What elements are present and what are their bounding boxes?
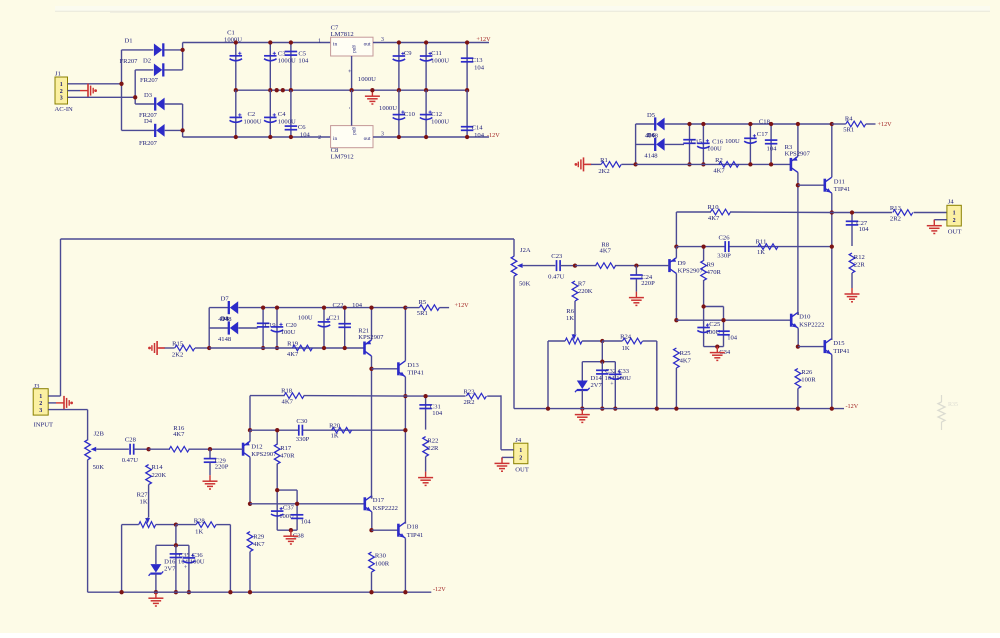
svg-text:. C37: . C37 <box>280 505 295 512</box>
junction feedback mid <box>248 428 252 432</box>
wire driver base rail <box>676 319 791 321</box>
junction center rail extra dots <box>275 88 285 92</box>
junction cap block bottom <box>715 344 719 348</box>
wire feedback left vertical <box>249 396 251 431</box>
junction C17 top <box>748 122 752 126</box>
wire zener node vertical <box>175 525 177 546</box>
capacitor C23 0.47U <box>548 253 575 281</box>
capacitor C3 1000U <box>264 43 296 91</box>
wire diode pair left vertical <box>635 124 637 164</box>
junction rectifier plus <box>180 48 184 52</box>
svg-text:100U: 100U <box>190 558 205 565</box>
svg-text:TIP41: TIP41 <box>834 186 850 193</box>
potentiometer wiper R27 <box>145 518 150 524</box>
junction output node <box>830 210 834 214</box>
junction R30 bottom <box>369 590 373 594</box>
transistor D15 TIP41 <box>798 339 850 409</box>
wire bias ground rail <box>209 347 364 349</box>
junction R17 top <box>275 428 279 432</box>
svg-text:1000U: 1000U <box>278 118 296 125</box>
svg-text:50K: 50K <box>93 464 105 471</box>
wire C8 ground pin <box>346 90 352 125</box>
svg-text:1000U: 1000U <box>431 118 449 125</box>
svg-text:R18: R18 <box>281 388 293 395</box>
zener diode D16 2V7 <box>149 545 177 592</box>
junction J1 pin1 <box>119 82 123 86</box>
svg-text:TIP41: TIP41 <box>407 532 423 539</box>
svg-text:AC-IN: AC-IN <box>55 106 74 113</box>
svg-text:R17: R17 <box>280 445 292 452</box>
svg-text:R11: R11 <box>756 239 767 246</box>
svg-text:1: 1 <box>39 394 42 400</box>
junction zener loop top <box>174 543 178 547</box>
junction feedback mid <box>674 244 678 248</box>
svg-text:TIP41: TIP41 <box>833 348 849 355</box>
power -12V channel <box>433 586 446 593</box>
svg-text:220K: 220K <box>152 472 167 479</box>
junction C35 bottom <box>174 590 178 594</box>
svg-text:1K: 1K <box>757 249 765 256</box>
regulator C7 LM7812 <box>318 24 384 56</box>
power -12V supply <box>487 132 500 139</box>
svg-text:4K7: 4K7 <box>600 248 612 255</box>
junction J1 pin3 <box>133 95 137 99</box>
svg-text:KPS2907: KPS2907 <box>785 150 811 157</box>
svg-text:0.47U: 0.47U <box>122 457 139 464</box>
chassis ground R15 input <box>148 341 165 355</box>
resistor R20 1K <box>329 422 352 439</box>
connector J1 AC-IN <box>55 71 74 114</box>
svg-text:D11: D11 <box>834 179 845 186</box>
wire raw plus rail <box>183 42 331 44</box>
junction C21 top <box>322 305 326 309</box>
ground cap block <box>283 530 298 544</box>
resistor R27 1K <box>137 485 149 518</box>
svg-text:D17: D17 <box>373 497 385 504</box>
wire feedback left vertical <box>675 212 677 247</box>
svg-text:J1: J1 <box>55 71 61 78</box>
svg-text:R22: R22 <box>427 438 438 445</box>
svg-text:330P: 330P <box>717 252 731 259</box>
wire rectifier output verticals <box>182 43 184 138</box>
capacitor C10 1000U <box>393 90 416 137</box>
junction R25 bottom <box>674 406 678 410</box>
svg-text:D15: D15 <box>833 340 845 347</box>
svg-text:100R: 100R <box>375 560 390 567</box>
junction R15 right <box>207 346 211 350</box>
wire bias top rail <box>690 123 832 125</box>
resistor R19 4K7 <box>287 341 312 359</box>
svg-text:1K: 1K <box>195 528 203 535</box>
junction R26 bottom <box>796 406 800 410</box>
svg-text:R25: R25 <box>680 350 692 357</box>
transistor R21 KPS2907 <box>358 308 384 356</box>
label 1000U floating C10 <box>379 105 397 112</box>
svg-text:KPS2907: KPS2907 <box>358 334 384 341</box>
svg-text:C16: C16 <box>712 139 724 146</box>
svg-text:C15,: C15, <box>691 139 704 146</box>
svg-text:C12: C12 <box>431 111 442 118</box>
junction zener loop top <box>600 360 604 364</box>
junction D15 emitter bottom <box>830 406 834 410</box>
ground zener block <box>148 592 163 606</box>
junction C18 top <box>769 122 773 126</box>
wire -12V output rail <box>373 136 489 138</box>
ground cap block <box>710 347 725 361</box>
capacitor C25 100U <box>697 321 721 336</box>
wire cap block loop <box>277 490 297 530</box>
svg-text:D9: D9 <box>678 260 687 267</box>
capacitor C28 0.47U <box>122 437 149 465</box>
svg-text:104: 104 <box>432 410 443 417</box>
junction gnd symbol <box>370 88 374 92</box>
junction R21 emitter top <box>369 305 373 309</box>
capacitor C30 330P <box>296 418 310 443</box>
junction D18 emitter bottom <box>403 590 407 594</box>
junction C13 bottom <box>465 88 469 92</box>
potentiometer J2A 50K <box>61 239 515 256</box>
junction R29 top <box>248 502 252 506</box>
wire negative rail <box>88 591 432 593</box>
svg-text:R6: R6 <box>566 308 574 315</box>
junction cap block bottom <box>289 528 293 532</box>
svg-text:3: 3 <box>39 408 42 414</box>
wire driver base rail <box>250 503 365 505</box>
junction mid rail right <box>830 244 834 248</box>
diode D1 FR207 <box>120 37 183 65</box>
svg-text:R28: R28 <box>194 517 206 524</box>
wire R23 to J4 pin1 <box>501 395 514 450</box>
svg-text:LM7812: LM7812 <box>331 31 354 38</box>
svg-text:2: 2 <box>519 456 522 462</box>
transistor D12 KPS2907 <box>243 430 277 504</box>
junction R24 corner bottom <box>228 590 232 594</box>
svg-text:1K: 1K <box>140 499 148 506</box>
wire output rail <box>832 212 892 214</box>
transistor R3 KPS2907 <box>785 124 811 172</box>
junction cap block top <box>701 304 705 308</box>
wire J3 pin3 to J2B <box>48 409 87 411</box>
svg-text:D10: D10 <box>799 314 811 321</box>
svg-text:5R1: 5R1 <box>843 126 854 133</box>
resistor R26 100R <box>795 369 816 409</box>
resistor R8 4K7 <box>575 241 636 268</box>
svg-text:1000U: 1000U <box>358 76 376 83</box>
resistor R9 470R <box>701 247 722 307</box>
wire zener node vertical <box>601 341 603 362</box>
svg-text:. C25: . C25 <box>706 321 721 328</box>
junction C19 top <box>261 305 265 309</box>
junction C1 bottom <box>234 88 238 92</box>
svg-text:R14: R14 <box>152 464 164 471</box>
potentiometer J2B 50K <box>87 410 89 441</box>
resistor R2 4K7 <box>713 157 738 175</box>
svg-text:1K: 1K <box>566 315 574 322</box>
svg-text:5R1: 5R1 <box>417 310 428 317</box>
svg-text:104: 104 <box>474 132 485 139</box>
junction R24 corner bottom <box>655 406 659 410</box>
svg-text:FR207: FR207 <box>139 140 158 147</box>
junction D15 base <box>796 344 800 348</box>
ground output J4 <box>927 220 942 234</box>
svg-text:2R2: 2R2 <box>464 399 475 406</box>
svg-text:C26: C26 <box>719 234 731 241</box>
junction D11 base <box>796 183 800 187</box>
svg-text:-12V: -12V <box>433 586 446 593</box>
junction C5 top <box>289 40 293 44</box>
faint ghost resistor artifact <box>938 395 958 430</box>
capacitor C16 100U <box>697 124 724 164</box>
svg-text:J4: J4 <box>515 437 522 444</box>
capacitor C2 1000U <box>230 90 262 137</box>
wire R21 collector <box>371 356 373 499</box>
wire zener loop top <box>156 544 189 546</box>
ground output J4 <box>495 457 510 471</box>
svg-text:out: out <box>364 41 371 47</box>
junction pot right <box>174 522 178 526</box>
svg-text:KSP2222: KSP2222 <box>799 321 824 328</box>
wire J3 pin1 to J2A <box>48 239 60 396</box>
svg-text:3: 3 <box>60 96 63 102</box>
resistor R12 22R <box>849 253 865 288</box>
svg-text:TIP41: TIP41 <box>407 370 423 377</box>
transistor D11 TIP41 <box>798 124 850 213</box>
junction C11 top <box>424 40 428 44</box>
power +12V channel <box>455 302 470 309</box>
svg-text:. C21: . C21 <box>326 314 340 321</box>
svg-text:C22: C22 <box>333 302 344 309</box>
junction C16 top <box>701 122 705 126</box>
svg-text:470R: 470R <box>280 453 295 460</box>
junction D14 bottom <box>580 406 584 410</box>
svg-text:1K: 1K <box>331 433 339 440</box>
capacitor C6 104 <box>285 90 311 138</box>
chassis ground J3 <box>56 396 73 410</box>
svg-text:4K7: 4K7 <box>708 215 720 222</box>
svg-text:4K7: 4K7 <box>173 431 185 438</box>
resistor R7 220K <box>572 280 593 301</box>
svg-text:R24: R24 <box>620 334 632 341</box>
junction R7 top <box>573 263 577 267</box>
label 1000U floating C9 <box>358 76 376 83</box>
svg-text:D4: D4 <box>144 118 153 125</box>
capacitor C32 104 <box>596 362 616 409</box>
resistor R5 5R1 <box>405 299 449 317</box>
wire raw minus rail <box>183 136 331 138</box>
resistor R29 4K7 <box>247 532 265 593</box>
svg-text:INPUT: INPUT <box>34 421 53 428</box>
svg-text:R27: R27 <box>137 492 149 499</box>
junction C22 bottom <box>343 346 347 350</box>
resistor R18 4K7 feedback <box>250 388 405 406</box>
capacitor C33 100U <box>609 362 631 409</box>
potentiometer body R27 <box>122 522 176 593</box>
svg-text:R23: R23 <box>464 388 476 395</box>
svg-text:in: in <box>333 41 337 47</box>
wire J1 pin3 <box>68 96 136 98</box>
ground C29 <box>203 475 218 489</box>
svg-text:2K2: 2K2 <box>598 168 609 175</box>
svg-text:R29: R29 <box>253 534 265 541</box>
svg-text:100R: 100R <box>801 377 816 384</box>
junction C9 bottom <box>397 88 401 92</box>
junction C12 bottom <box>424 135 428 139</box>
svg-text:R30: R30 <box>375 553 387 560</box>
junction pot left bottom <box>546 406 550 410</box>
diode D2 FR207 <box>135 58 182 84</box>
svg-text:100U: 100U <box>298 314 313 321</box>
junction D18 base <box>369 528 373 532</box>
wire output rail <box>405 395 465 397</box>
svg-text:R2: R2 <box>715 157 723 164</box>
resistor R13 2R2 <box>890 205 947 223</box>
svg-text:-12V: -12V <box>846 403 859 410</box>
svg-text:+12V: +12V <box>476 36 491 43</box>
potentiometer wiper R6 <box>572 334 577 340</box>
connector J4 OUT <box>947 199 961 236</box>
svg-text:4K7: 4K7 <box>713 168 725 175</box>
svg-text:FR207: FR207 <box>140 77 159 84</box>
svg-text:R26: R26 <box>801 369 813 376</box>
junction C29 top <box>208 447 212 451</box>
diode D5 4148 <box>636 112 690 159</box>
junction C15 top <box>687 122 691 126</box>
svg-text:470R: 470R <box>707 269 722 276</box>
ground C24 <box>629 292 644 306</box>
svg-text:C10: C10 <box>404 111 416 118</box>
diode D4 FR207 <box>122 118 183 147</box>
svg-text:C11: C11 <box>431 50 442 57</box>
svg-text:-: - <box>346 107 352 109</box>
diode D7 4148 <box>209 296 263 344</box>
junction C19 bottom <box>261 346 265 350</box>
junction C3 top <box>268 40 272 44</box>
svg-text:C5: C5 <box>298 50 306 57</box>
transistor D13 TIP41 <box>372 308 424 397</box>
junction C17 bottom <box>748 162 752 166</box>
wire zener loop top <box>582 361 615 363</box>
junction D11 collector top <box>830 122 834 126</box>
transistor D17 KSP2222 <box>365 496 398 530</box>
resistor R25 4K7 <box>674 348 692 409</box>
svg-text:330P: 330P <box>296 436 310 443</box>
junction cap block top <box>275 488 279 492</box>
potentiometer body R6 <box>548 338 602 409</box>
svg-text:50K: 50K <box>519 280 531 287</box>
svg-text:J2B: J2B <box>94 431 105 438</box>
regulator C8 LM7912 <box>318 126 384 161</box>
diode D6 4148 <box>636 138 684 151</box>
svg-text:C30: C30 <box>296 418 308 425</box>
capacitor C34 104 <box>717 331 738 356</box>
capacitor C14 104 <box>461 90 485 139</box>
wire J1 pin1 <box>68 83 122 85</box>
svg-text:-12V: -12V <box>487 132 500 139</box>
wire output node vertical <box>831 213 833 341</box>
svg-text:J2A: J2A <box>520 247 531 254</box>
svg-text:1: 1 <box>60 82 63 88</box>
resistor R23 2R2 <box>464 388 502 406</box>
junction C16 bottom <box>701 162 705 166</box>
junction C10 bottom <box>397 135 401 139</box>
junction C18 bottom <box>769 162 773 166</box>
svg-text:104: 104 <box>298 58 309 65</box>
power +12V channel <box>878 121 893 128</box>
svg-text:in: in <box>333 136 337 142</box>
power -12V channel <box>846 403 859 410</box>
svg-text:out: out <box>364 136 371 142</box>
chassis ground R1 input <box>575 157 592 171</box>
svg-text:1000U: 1000U <box>431 57 449 64</box>
junction R25 top <box>674 318 678 322</box>
junction mid rail right <box>403 428 407 432</box>
wire diode pair left vertical <box>208 308 210 348</box>
wire mid rail <box>676 246 831 248</box>
power +12V supply <box>476 36 491 43</box>
junction C20 bottom <box>275 346 279 350</box>
resistor R6 1K <box>566 301 575 334</box>
junction C32 bottom <box>600 406 604 410</box>
svg-text:D3: D3 <box>144 92 153 99</box>
svg-text:104: 104 <box>859 226 870 233</box>
svg-text:4148: 4148 <box>644 152 658 159</box>
resistor R24 1K <box>602 334 657 409</box>
svg-text:4K7: 4K7 <box>253 541 265 548</box>
junction D13 collector top <box>403 305 407 309</box>
wire C7 ground pin <box>346 56 352 90</box>
wire D12 base <box>210 448 243 450</box>
resistor R10 4K7 feedback <box>676 204 831 222</box>
capacitor C5 104 <box>285 43 309 91</box>
svg-text:104: 104 <box>352 302 363 309</box>
capacitor C35 104 <box>170 545 191 592</box>
svg-text:220P: 220P <box>215 464 229 471</box>
junction C4 bottom <box>268 135 272 139</box>
ground R12 <box>845 288 860 302</box>
svg-text:1000U: 1000U <box>278 58 296 65</box>
svg-text:22R: 22R <box>427 445 439 452</box>
svg-text:gnd: gnd <box>351 127 356 135</box>
svg-text:J3: J3 <box>34 383 41 390</box>
svg-text:C14: C14 <box>472 124 484 131</box>
capacitor C20 100U <box>271 308 298 348</box>
svg-text:D13: D13 <box>407 362 419 369</box>
transistor D18 TIP41 <box>372 522 424 592</box>
resistor R4 5R1 <box>832 116 876 134</box>
svg-text:2: 2 <box>39 401 42 407</box>
junction C22 top <box>343 305 347 309</box>
wire rectifier left verticals <box>122 50 136 130</box>
capacitor C1 1000U <box>224 30 242 91</box>
svg-text:R7: R7 <box>578 280 586 287</box>
svg-text:R12: R12 <box>854 254 865 261</box>
svg-text:J4: J4 <box>948 199 955 206</box>
svg-text:22R: 22R <box>854 261 866 268</box>
svg-text:+12V: +12V <box>878 121 893 128</box>
transistor D10 KSP2222 <box>791 312 824 346</box>
resistor R15 2K2 <box>159 340 210 358</box>
svg-text:C28: C28 <box>125 437 137 444</box>
svg-text:104: 104 <box>474 64 485 71</box>
svg-text:4K7: 4K7 <box>282 399 294 406</box>
junction C24 top <box>634 263 638 267</box>
capacitor C26 330P <box>717 234 731 259</box>
resistor R16 4K7 <box>149 425 210 452</box>
junction C1 top <box>234 40 238 44</box>
junction R9 top <box>701 244 705 248</box>
junction R1 right <box>633 162 637 166</box>
ground R22 <box>418 472 433 486</box>
